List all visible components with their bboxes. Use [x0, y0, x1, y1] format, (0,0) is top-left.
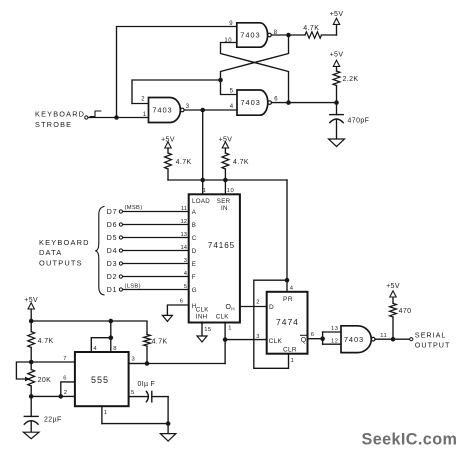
- svg-text:D6: D6: [107, 222, 118, 229]
- svg-text:10: 10: [224, 38, 232, 44]
- svg-text:22µF: 22µF: [44, 416, 62, 423]
- svg-text:D7: D7: [107, 209, 118, 216]
- svg-text:DATA: DATA: [39, 248, 62, 257]
- svg-text:F: F: [192, 274, 196, 281]
- svg-text:12: 12: [181, 219, 187, 225]
- svg-text:6: 6: [180, 298, 184, 304]
- svg-text:5: 5: [230, 88, 234, 94]
- svg-text:D4: D4: [107, 248, 118, 255]
- svg-text:20K: 20K: [38, 377, 52, 384]
- svg-text:2: 2: [141, 97, 145, 103]
- svg-text:3: 3: [184, 258, 187, 264]
- svg-text:14: 14: [181, 245, 188, 251]
- svg-text:+5V: +5V: [386, 283, 400, 290]
- svg-text:KEYBOARD: KEYBOARD: [35, 110, 85, 119]
- svg-text:4: 4: [93, 346, 97, 352]
- svg-text:1: 1: [228, 326, 232, 332]
- svg-text:6: 6: [274, 97, 278, 103]
- svg-text:7: 7: [63, 356, 67, 362]
- svg-text:2: 2: [64, 390, 68, 396]
- svg-text:D2: D2: [107, 274, 118, 281]
- svg-text:C: C: [192, 235, 197, 242]
- svg-text:2.2K: 2.2K: [343, 76, 359, 83]
- svg-text:G: G: [192, 287, 197, 294]
- svg-text:CLK: CLK: [216, 314, 230, 321]
- svg-text:4: 4: [290, 285, 294, 291]
- svg-text:LOAD: LOAD: [192, 198, 210, 205]
- svg-text:7403: 7403: [240, 98, 260, 107]
- svg-text:11: 11: [181, 206, 187, 212]
- svg-text:SeekIC.com: SeekIC.com: [362, 431, 458, 449]
- svg-text:470: 470: [399, 308, 412, 315]
- svg-text:OUTPUTS: OUTPUTS: [39, 258, 83, 267]
- svg-text:555: 555: [91, 375, 109, 385]
- svg-text:13: 13: [331, 326, 338, 332]
- svg-text:1: 1: [104, 410, 108, 416]
- svg-text:3: 3: [132, 357, 136, 363]
- svg-text:7403: 7403: [344, 335, 364, 344]
- svg-text:470pF: 470pF: [348, 118, 370, 125]
- svg-text:11: 11: [380, 333, 387, 339]
- svg-text:2: 2: [256, 300, 260, 306]
- svg-text:CLK: CLK: [269, 338, 283, 345]
- svg-text:INH: INH: [196, 314, 208, 321]
- svg-text:4.7K: 4.7K: [233, 159, 249, 166]
- svg-text:E: E: [192, 261, 197, 268]
- svg-text:(MSB): (MSB): [125, 205, 143, 211]
- svg-text:(LSB): (LSB): [125, 284, 141, 290]
- svg-text:6: 6: [311, 332, 315, 338]
- svg-text:SER: SER: [217, 198, 231, 205]
- svg-text:5: 5: [184, 284, 187, 290]
- svg-text:D: D: [269, 304, 274, 311]
- svg-text:9: 9: [229, 21, 233, 27]
- svg-text:15: 15: [204, 327, 211, 333]
- svg-text:13: 13: [181, 232, 187, 238]
- svg-text:6: 6: [63, 375, 67, 381]
- svg-text:4.7K: 4.7K: [303, 25, 319, 32]
- svg-text:D5: D5: [107, 235, 118, 242]
- svg-text:IN: IN: [221, 205, 228, 212]
- svg-text:12: 12: [331, 338, 338, 344]
- svg-text:OUTPUT: OUTPUT: [415, 340, 451, 349]
- svg-text:+5V: +5V: [218, 137, 232, 144]
- svg-text:D1: D1: [107, 287, 118, 294]
- svg-text:4: 4: [230, 104, 234, 110]
- svg-text:SERIAL: SERIAL: [415, 330, 447, 339]
- svg-text:PR: PR: [283, 296, 293, 303]
- svg-text:KEYBOARD: KEYBOARD: [39, 238, 90, 247]
- svg-text:D3: D3: [107, 261, 118, 268]
- svg-text:8: 8: [113, 346, 117, 352]
- svg-text:+5V: +5V: [24, 297, 38, 304]
- svg-text:+5V: +5V: [161, 137, 175, 144]
- svg-text:4.7K: 4.7K: [176, 159, 192, 166]
- svg-text:A: A: [192, 209, 197, 216]
- svg-text:74165: 74165: [208, 241, 235, 250]
- svg-text:3: 3: [186, 104, 190, 110]
- svg-text:7474: 7474: [276, 317, 299, 327]
- svg-text:8: 8: [274, 30, 278, 36]
- svg-text:4.7K: 4.7K: [38, 338, 54, 345]
- svg-text:1: 1: [143, 112, 147, 118]
- svg-text:1: 1: [291, 358, 295, 364]
- svg-text:D: D: [192, 248, 197, 255]
- svg-text:CLK: CLK: [196, 307, 210, 314]
- svg-text:STROBE: STROBE: [35, 120, 72, 129]
- svg-text:3: 3: [256, 334, 260, 340]
- svg-text:4.7K: 4.7K: [152, 338, 168, 345]
- svg-text:Q: Q: [301, 337, 307, 344]
- svg-text:CLR: CLR: [283, 347, 297, 354]
- svg-text:+5V: +5V: [330, 11, 344, 18]
- svg-text:+5V: +5V: [330, 51, 344, 58]
- svg-text:5: 5: [131, 390, 135, 396]
- svg-text:B: B: [192, 222, 197, 229]
- svg-text:0Iµ F: 0Iµ F: [138, 381, 156, 388]
- svg-text:H: H: [231, 307, 235, 312]
- svg-text:7403: 7403: [152, 106, 172, 115]
- svg-text:7403: 7403: [240, 31, 260, 40]
